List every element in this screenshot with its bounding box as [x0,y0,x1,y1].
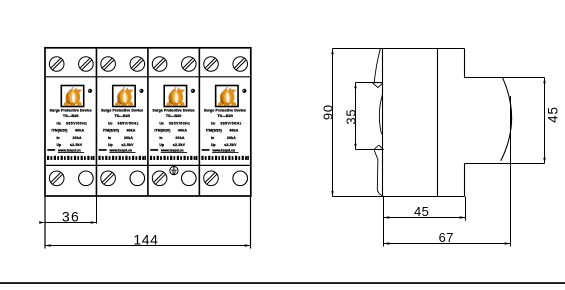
extension line left bottom [383,197,385,247]
svg-text:144: 144 [133,232,158,248]
label module 1 [47,86,95,161]
earth symbol module 3 [170,165,178,174]
side body top edge [333,48,465,50]
bottom screws module 1 [49,171,64,186]
extension line 67 right [510,96,512,247]
dimension 35 [355,83,357,150]
protrusion bottom step [465,163,545,165]
protrusion top step [465,77,545,79]
protrusion curved face [501,78,512,161]
dimension 144 [45,245,251,247]
bezel lens arc [379,94,382,134]
top screws module 3 [152,57,167,72]
bezel bottom slant [374,150,383,196]
side body right upper edge [464,49,466,78]
extension line 45 bottom right [465,197,467,221]
dimension 35 extension top [356,82,383,84]
module divider 3 [198,48,200,196]
top screws module 4 [204,57,219,72]
bottom screws module 4 [204,171,219,186]
bezel top notch [372,83,383,88]
svg-text:67: 67 [439,230,454,245]
module face line [382,49,384,197]
page footer rule [0,282,565,284]
svg-text:35: 35 [343,109,358,125]
extension line right [250,196,252,249]
label module 3 [150,86,198,161]
label module 2 [98,86,146,161]
dimension 45 bottom [384,217,466,219]
extension line left [44,196,46,249]
module divider 2 [147,48,149,196]
label module 4 [201,86,249,161]
bottom terminal row line [45,164,251,166]
top terminal row line [45,76,251,78]
svg-text:90: 90 [320,104,335,120]
bottom screws module 2 [101,171,116,186]
top screws module 1 [49,57,64,72]
bezel bottom notch [373,145,383,150]
dimension 35 extension bottom [356,149,383,151]
svg-text:45: 45 [414,204,429,219]
svg-text:45: 45 [546,106,561,123]
bezel top slant [374,49,380,83]
front view outer body [45,48,251,196]
svg-text:36: 36 [62,208,80,224]
top screws module 2 [101,57,116,72]
side body bottom edge [333,196,465,198]
dimension 67 [384,243,511,245]
dimension 90 [332,49,334,197]
dimension 36 [45,222,97,224]
bottom screws module 3 [152,171,167,186]
extension line module1 [96,196,98,224]
side body right lower edge [464,164,466,197]
dimension 45 right [544,78,546,164]
module divider 1 [95,48,97,196]
internal body line [437,49,439,197]
